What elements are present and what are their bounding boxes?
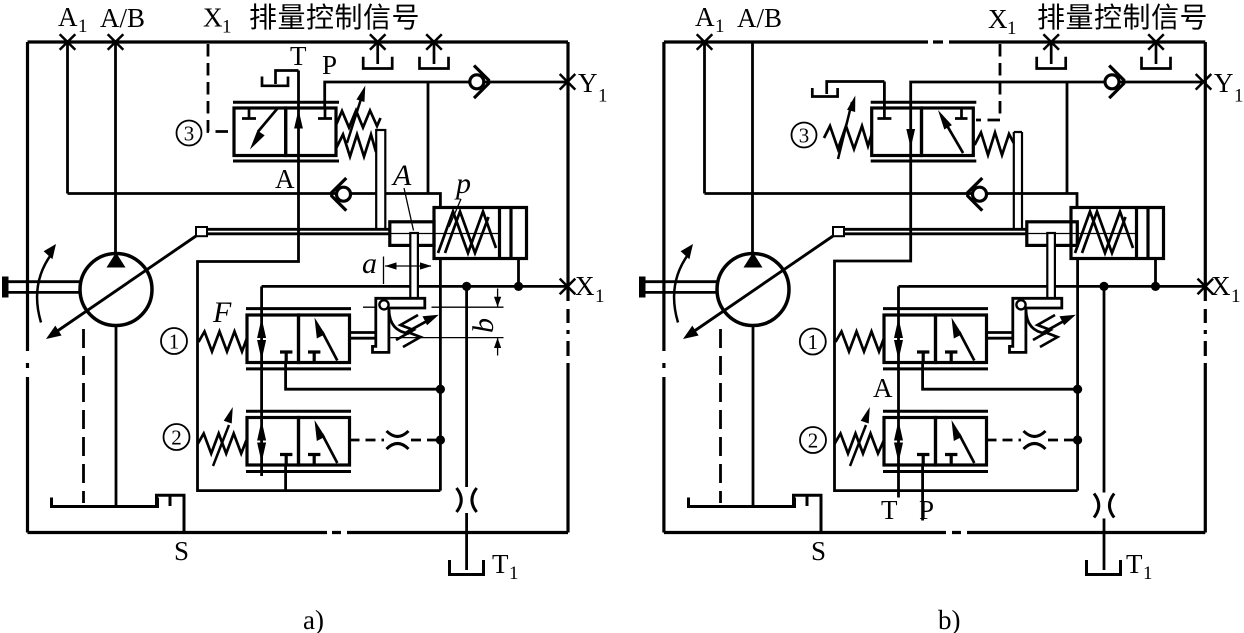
- port X mark pilot2 b: [1148, 34, 1164, 50]
- port X mark X1 b: [1198, 279, 1214, 295]
- valve 1 flow arrows b: [894, 318, 903, 360]
- port X mark A/B: [108, 34, 124, 50]
- valve 1 drain to riser: [286, 363, 441, 390]
- junction dot X1-T1 b: [1099, 282, 1108, 291]
- junction dot X1-cylinder b: [1151, 282, 1160, 291]
- svg-text:1: 1: [1231, 286, 1241, 307]
- port X mark Y1 b: [1196, 74, 1212, 90]
- lever bracket: [373, 298, 425, 352]
- wire cylinder right chamber to X1 b: [1154, 259, 1157, 287]
- inline orifice symbol b: [1024, 431, 1046, 449]
- valve 3 right box blocked stub P: [318, 108, 332, 119]
- dimension arrows b: [494, 289, 501, 356]
- valve 2 body b: [884, 418, 987, 466]
- valve 3 spring arrow b: [838, 96, 855, 160]
- wire A/B vertical to pump: [114, 43, 117, 254]
- svg-text:Y: Y: [1214, 68, 1234, 98]
- dimension arrow a: [385, 262, 432, 269]
- pump suction line b: [752, 326, 755, 507]
- svg-text:排量控制信号: 排量控制信号: [1037, 2, 1208, 33]
- check valve V2 on A line: [332, 178, 351, 211]
- check valve V1 on Y1 line b: [1105, 66, 1124, 99]
- valve 2 blocked stubs: [280, 455, 320, 467]
- pump P1 flow triangle b: [744, 253, 763, 268]
- wire drain riser with junctions b: [1076, 259, 1079, 491]
- svg-text:Y: Y: [578, 68, 598, 98]
- port X mark pilot1: [370, 34, 386, 50]
- valve 2 orifice line dashed: [350, 439, 441, 442]
- valve 3 right box flow arrow up: [294, 110, 303, 129]
- stroking linkage clevis: [196, 227, 207, 236]
- pump variable displacement arrow: [46, 236, 196, 339]
- circled 3 designator: [177, 121, 202, 146]
- wire Y1 branch down to A line: [427, 82, 430, 194]
- valve 2 P stub through drain b: [921, 465, 924, 521]
- valve 3 left box blocked stub b: [877, 108, 891, 119]
- svg-text:P: P: [919, 495, 934, 525]
- valve 3 adjustable spring upper: [337, 111, 381, 128]
- svg-text:T: T: [1126, 549, 1143, 579]
- circled 1 designator b: [800, 329, 826, 355]
- svg-text:b: b: [467, 318, 500, 333]
- svg-text:2: 2: [171, 426, 182, 450]
- pilot wire X1 dashed to valve 3 b: [976, 44, 1000, 120]
- valve 1 spring F: [199, 332, 248, 352]
- valve 3 body: [234, 108, 336, 156]
- circled 1 designator: [161, 328, 187, 354]
- feedback rod from valve 3 spring b: [1014, 132, 1022, 229]
- valve 3 drain vent symbol b: [812, 82, 884, 97]
- pump P1 circle: [80, 254, 152, 326]
- servo piston rod axis line: [391, 233, 499, 235]
- servo piston rod axis line b: [1028, 233, 1136, 235]
- valve 2 blocked stubs b: [917, 455, 957, 467]
- junction dot drain 1: [436, 385, 445, 394]
- enclosure border b right (dash-dot): [1204, 42, 1207, 533]
- valve 1 blocked stubs: [280, 352, 320, 364]
- svg-text:X: X: [575, 271, 595, 301]
- valve 1 body b: [884, 315, 987, 363]
- dimension line a vertical: [383, 257, 385, 285]
- valve 3 right box arrow b: [938, 110, 963, 153]
- junction dot X1-T1: [462, 282, 471, 291]
- svg-text:X: X: [988, 4, 1008, 34]
- orifice on T1 line: [454, 487, 479, 513]
- valve 3 left box arrow: [250, 109, 278, 150]
- valve 2 position bars: [246, 411, 351, 471]
- enclosure border b top (dash-dot): [664, 40, 1205, 43]
- lever pivot ring b: [1016, 300, 1025, 309]
- circled 2 designator: [164, 424, 190, 450]
- wire A1 vertical: [66, 43, 69, 194]
- junction dot drain 2 b: [1073, 435, 1082, 444]
- wire Y1 line and P drop through valve3 drain loop b: [835, 82, 1204, 491]
- valve 2 right box arrow b: [952, 420, 975, 463]
- port X mark pilot1 b: [1043, 34, 1059, 50]
- inline orifice symbol: [387, 431, 409, 449]
- wire X1 main line: [262, 285, 568, 288]
- servo spring coil: [438, 212, 496, 254]
- valve 3 position bars: [233, 102, 339, 161]
- valve 3 adjustable spring left b: [824, 126, 872, 149]
- feedback plunger A: [410, 233, 418, 299]
- wire A line horizontal with drop to cylinder b: [705, 194, 1078, 208]
- circled 2 designator b: [800, 427, 826, 453]
- wire Y1 branch down to A line b: [1066, 82, 1069, 194]
- valve 1 push rod b: [987, 333, 1013, 339]
- wire T through valve 3 then drain loop left-down-right: [198, 71, 441, 491]
- circled 3 designator b: [792, 123, 817, 148]
- leader line for label p: [449, 199, 461, 227]
- reservoir under pump b: [689, 498, 795, 507]
- plugged pilot port symbol 2 b: [1142, 43, 1171, 69]
- pump P1 flow triangle: [107, 253, 126, 268]
- valve 3 right box blocked stub b: [955, 108, 968, 119]
- leader line for label A: [404, 188, 414, 231]
- pump shaft end bar b: [639, 277, 646, 298]
- valve 2 bottom stub to drain: [284, 465, 287, 491]
- pump suction line: [115, 326, 118, 507]
- junction dot drain 2: [436, 435, 445, 444]
- svg-text:p: p: [454, 167, 471, 200]
- svg-text:1: 1: [509, 563, 519, 584]
- svg-text:1: 1: [78, 16, 88, 37]
- svg-text:1: 1: [1007, 18, 1017, 39]
- valve 1 spring b: [836, 332, 885, 352]
- lever feedback spring zigzag: [396, 315, 425, 347]
- svg-text:X: X: [1211, 271, 1231, 301]
- enclosure border a left (dash-dot): [26, 42, 29, 533]
- suction port S step b: [794, 495, 822, 532]
- stroking linkage rails to servo b: [844, 229, 1027, 234]
- pump rotation arrow b: [674, 244, 693, 323]
- junction dot X1-cylinder: [514, 282, 523, 291]
- svg-text:T: T: [492, 549, 509, 579]
- svg-text:T: T: [881, 495, 898, 525]
- valve 1 body: [247, 315, 350, 363]
- lever arc: [389, 310, 409, 334]
- valve 2 adjustable spring: [198, 434, 247, 454]
- svg-text:a: a: [362, 247, 377, 280]
- wire P to Y1: [325, 82, 568, 108]
- enclosure border a right (dash-dot): [566, 42, 569, 533]
- svg-text:P: P: [322, 50, 337, 80]
- servo piston lines: [500, 209, 512, 258]
- valve 3 left box flow arrow down b: [906, 129, 915, 148]
- valve 2 flow arrows: [257, 421, 266, 463]
- valve 2 right box arrow: [315, 420, 338, 463]
- junction dot drain 1 b: [1073, 385, 1082, 394]
- servo piston lines b: [1137, 209, 1149, 258]
- port X mark X1: [560, 279, 576, 295]
- valve 3 drain vent symbol: [262, 71, 299, 86]
- svg-text:T: T: [290, 41, 307, 71]
- svg-text:S: S: [811, 536, 826, 566]
- svg-text:1: 1: [1143, 563, 1153, 584]
- pump shaft end bar: [2, 277, 9, 298]
- valve 1 position bars b: [883, 309, 988, 369]
- servo cylinder rod-side box: [390, 222, 434, 246]
- svg-text:3: 3: [799, 124, 810, 148]
- svg-text:3: 3: [184, 122, 195, 146]
- valve 3 left box blocked stub: [242, 108, 256, 119]
- servo cylinder main body: [434, 208, 527, 259]
- wire A/B vertical to pump b: [751, 43, 754, 254]
- valve 1 push rod: [350, 333, 376, 339]
- suction port S step: [157, 495, 185, 532]
- valve 2 adjustable spring b: [835, 434, 885, 454]
- lever bracket b: [1010, 298, 1062, 352]
- valve 3 plain spring right b: [975, 133, 1014, 156]
- plugged pilot port symbol 2: [420, 43, 449, 69]
- pump shaft: [2, 282, 81, 293]
- valve 3 position bars b: [871, 102, 977, 161]
- valve 2 flow arrows b: [894, 421, 903, 463]
- wire through valves 1 and 2: [260, 286, 263, 476]
- port X mark A1: [60, 34, 76, 50]
- valve 2 spring arrow: [213, 407, 233, 466]
- wire X1 through valves 1 and 2 b: [897, 286, 900, 497]
- servo cylinder rod-side box b: [1027, 222, 1078, 246]
- wire cylinder right chamber to X1: [517, 259, 520, 287]
- svg-text:1: 1: [715, 16, 725, 37]
- servo spring coil second stroke b: [1082, 212, 1126, 254]
- svg-text:1: 1: [169, 330, 180, 354]
- pump rotation arrow: [37, 244, 56, 323]
- servo spring coil second stroke: [445, 212, 489, 254]
- valve 2 body: [247, 418, 350, 466]
- port X mark pilot2: [426, 34, 442, 50]
- plugged pilot port symbol 1 b: [1037, 43, 1066, 69]
- pump variable displacement arrow b: [683, 236, 833, 339]
- reservoir T1: [450, 560, 484, 575]
- svg-text:A: A: [873, 373, 893, 403]
- port X mark Y1: [560, 74, 576, 90]
- enclosure border b bottom (dash-dot): [664, 531, 1205, 534]
- servo cylinder main body b: [1071, 208, 1164, 259]
- svg-text:1: 1: [598, 86, 608, 107]
- pump shaft b: [639, 282, 718, 293]
- svg-text:X: X: [203, 3, 223, 33]
- valve 3 spring lower: [337, 135, 377, 157]
- enclosure border b left (dash-dot): [662, 42, 665, 533]
- wire drain riser with junctions: [439, 259, 442, 491]
- svg-text:A: A: [275, 164, 295, 194]
- pump case drain dashed b: [719, 329, 722, 503]
- valve 2 orifice line dashed b: [987, 439, 1078, 442]
- enclosure border a top: [28, 40, 569, 43]
- svg-text:A: A: [391, 159, 412, 192]
- lever pivot ring: [379, 300, 388, 309]
- valve 1 right box arrow b: [952, 318, 975, 361]
- svg-text:F: F: [212, 296, 232, 329]
- svg-text:1: 1: [222, 17, 232, 38]
- valve 2 spring arrow b: [850, 407, 870, 466]
- servo spring coil b: [1075, 212, 1133, 254]
- svg-text:b): b): [938, 605, 961, 633]
- valve 1 blocked stubs b: [917, 352, 957, 364]
- reservoir under pump: [52, 498, 158, 507]
- svg-text:1: 1: [808, 330, 819, 354]
- svg-text:1: 1: [595, 286, 605, 307]
- valve 1 right box arrow: [315, 318, 338, 361]
- plugged pilot port symbol 1: [363, 43, 392, 69]
- reservoir T1 b: [1087, 560, 1121, 575]
- valve 1 position bars: [246, 309, 351, 369]
- svg-text:排量控制信号: 排量控制信号: [249, 2, 420, 33]
- feedback plunger A b: [1047, 233, 1055, 299]
- valve 2 position bars b: [883, 411, 988, 471]
- stroking linkage rails to servo: [207, 229, 390, 234]
- pump P1 circle b: [717, 254, 789, 326]
- svg-text:2: 2: [808, 429, 819, 453]
- svg-text:A: A: [695, 2, 715, 32]
- port X mark A1 b: [697, 34, 713, 50]
- valve 1 drain to riser b: [923, 363, 1078, 390]
- pilot wire X1 dashed to valve 3: [208, 44, 233, 132]
- lever feedback spring zigzag b: [1033, 315, 1062, 347]
- wire A1 vertical b: [703, 43, 706, 194]
- svg-text:1: 1: [1234, 86, 1244, 107]
- pump case drain dashed: [82, 329, 85, 503]
- feedback rod from valve 3 spring: [376, 130, 385, 229]
- orifice on T1 line b: [1092, 493, 1117, 519]
- wire T port valve 3 b: [883, 82, 886, 109]
- check valve V1 on Y1 line: [470, 66, 489, 99]
- wire A line horizontal with drop to cylinder: [68, 194, 441, 208]
- stroking linkage clevis b: [833, 227, 844, 236]
- valve 1 flow arrows: [257, 318, 266, 360]
- enclosure border a bottom (dash-dot): [28, 531, 569, 534]
- wire T1 drain with orifice to tank: [465, 286, 468, 570]
- lever feedback arrow b: [1043, 315, 1076, 333]
- svg-text:A/B: A/B: [737, 3, 782, 33]
- wire X1 main line b: [899, 285, 1206, 288]
- svg-text:A: A: [58, 2, 78, 32]
- wire T1 drain with orifice to tank b: [1103, 286, 1106, 570]
- svg-text:S: S: [174, 536, 189, 566]
- dimension lines b: [363, 307, 504, 337]
- valve 3 spring arrow: [347, 86, 365, 144]
- valve 3 body b: [872, 108, 974, 156]
- lever feedback arrow: [406, 315, 439, 333]
- svg-text:a): a): [303, 605, 324, 633]
- svg-text:A/B: A/B: [100, 3, 145, 33]
- lever arc b: [1026, 310, 1046, 334]
- check valve V2 on A line b: [968, 178, 987, 211]
